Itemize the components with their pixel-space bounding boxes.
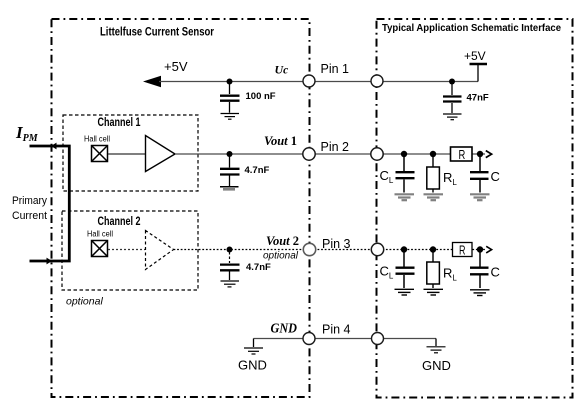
- capacitor C row2: [470, 156, 489, 193]
- svg-text:Pin 2: Pin 2: [321, 140, 350, 154]
- junction dot row2 CL: [401, 151, 407, 157]
- svg-text:47nF: 47nF: [467, 93, 489, 104]
- ground under CL row2: [395, 194, 415, 200]
- junction dot row3 RL: [430, 246, 436, 252]
- pin circle row1 on interface edge: [371, 75, 383, 87]
- svg-text:Vout 1: Vout 1: [264, 134, 297, 148]
- svg-text:4.7nF: 4.7nF: [246, 262, 271, 273]
- hall cell Ch2: [92, 241, 108, 257]
- junction dot row1 left: [227, 79, 233, 85]
- svg-text:Littelfuse Current Sensor: Littelfuse Current Sensor: [100, 27, 214, 39]
- ground under 47nF: [443, 114, 462, 120]
- wire row3 (dotted): [174, 249, 486, 251]
- ground right row4: [435, 339, 437, 347]
- svg-text:R: R: [459, 244, 466, 258]
- svg-text:Channel 1: Channel 1: [98, 117, 141, 129]
- Channel 1 box: [63, 115, 198, 191]
- svg-text:Vout 2: Vout 2: [266, 234, 299, 248]
- pin circle row3 on sensor edge: [303, 243, 315, 255]
- +5V arrow (left): [143, 76, 161, 87]
- svg-text:optional: optional: [263, 251, 299, 262]
- junction dot row3 C: [477, 246, 483, 252]
- pin circle row4 on interface edge: [372, 333, 384, 345]
- resistor RL row3: [432, 252, 434, 262]
- svg-text:Primary: Primary: [12, 195, 47, 207]
- +5V rail bar right: [470, 63, 488, 65]
- resistor R row2: [451, 147, 473, 161]
- ground under 100nF: [221, 114, 240, 120]
- primary current conductor: [30, 146, 70, 261]
- svg-text:100 nF: 100 nF: [246, 91, 276, 102]
- primary current arrow in (top, pointing left): [51, 143, 57, 150]
- svg-text:GND: GND: [271, 322, 298, 337]
- pin circle row2 on sensor edge: [303, 148, 315, 160]
- capacitor 100nF: [220, 84, 240, 113]
- pin circle row3 on interface edge: [371, 243, 383, 255]
- ground left row4: [253, 339, 255, 348]
- capacitor 4.7nF Ch1: [220, 156, 240, 186]
- svg-text:optional: optional: [66, 296, 103, 308]
- capacitor 4.7nF Ch2 (dashed lead): [220, 252, 240, 280]
- svg-text:+5V: +5V: [464, 49, 486, 63]
- svg-text:Uc: Uc: [275, 63, 289, 77]
- ground under 4.7nF Ch1: [220, 186, 239, 188]
- capacitor CL row2: [396, 156, 415, 193]
- ground under CL row3: [395, 289, 415, 295]
- Typical Application Schematic Interface box: [377, 19, 573, 398]
- svg-text:R: R: [459, 147, 466, 162]
- svg-text:GND: GND: [422, 358, 451, 373]
- junction dot row2 C: [477, 151, 483, 157]
- junction dot row3 CL: [401, 246, 407, 252]
- wire hall cell to amp Ch1: [108, 153, 145, 155]
- Channel 2 box: [62, 211, 198, 290]
- ground under RL row3: [424, 289, 444, 295]
- wire row2: [175, 153, 485, 155]
- ground under 4.7nF Ch2: [221, 281, 240, 287]
- svg-text:Hall cell: Hall cell: [84, 135, 110, 144]
- wire row1: [159, 81, 478, 83]
- junction dot row2 a: [227, 151, 233, 157]
- op-amp Ch2 (dashed, optional): [146, 231, 174, 270]
- svg-text:Channel 2: Channel 2: [98, 216, 141, 228]
- svg-text:4.7nF: 4.7nF: [245, 165, 270, 176]
- hall cell Ch1: [92, 146, 108, 162]
- op-amp Ch1: [146, 136, 176, 172]
- output arrow row2: [486, 151, 492, 158]
- wire up to +5V right: [477, 64, 479, 82]
- svg-text:C: C: [491, 265, 500, 280]
- primary current arrow out (bottom, pointing right): [47, 258, 53, 265]
- junction dot row1 right: [449, 79, 455, 85]
- ground under C row3: [470, 290, 490, 296]
- capacitor CL row3: [396, 252, 415, 288]
- resistor RL row2: [432, 156, 434, 167]
- capacitor C row3: [470, 252, 489, 288]
- pin circle row2 on interface edge: [371, 148, 383, 160]
- svg-text:C: C: [491, 169, 500, 184]
- svg-text:Typical Application Schematic: Typical Application Schematic Interface: [382, 22, 561, 34]
- svg-text:GND: GND: [238, 358, 267, 373]
- junction dot row3 a: [227, 247, 233, 253]
- wire hall cell to amp Ch2 (dotted): [108, 249, 145, 251]
- wire row4: [254, 338, 437, 340]
- svg-text:Current: Current: [12, 210, 47, 222]
- Littelfuse Current Sensor box: [52, 19, 310, 397]
- output arrow row3: [486, 246, 491, 253]
- svg-text:Pin 1: Pin 1: [321, 62, 350, 76]
- ground under C row2: [470, 194, 490, 200]
- capacitor 47nF: [443, 84, 462, 113]
- svg-text:Pin 3: Pin 3: [322, 237, 351, 251]
- ground under RL row2: [424, 194, 444, 200]
- svg-text:Hall cell: Hall cell: [87, 230, 113, 239]
- pin circle row4 on sensor edge: [303, 333, 315, 345]
- svg-text:Pin 4: Pin 4: [322, 323, 351, 337]
- junction dot row2 RL: [430, 151, 436, 157]
- resistor R row3: [453, 243, 473, 257]
- svg-text:+5V: +5V: [164, 59, 188, 74]
- pin circle row1 on sensor edge: [303, 75, 315, 87]
